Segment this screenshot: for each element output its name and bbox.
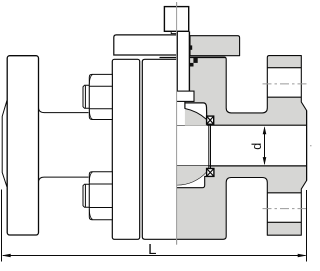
- svg-text:d: d: [250, 143, 264, 150]
- svg-text:L: L: [148, 241, 156, 258]
